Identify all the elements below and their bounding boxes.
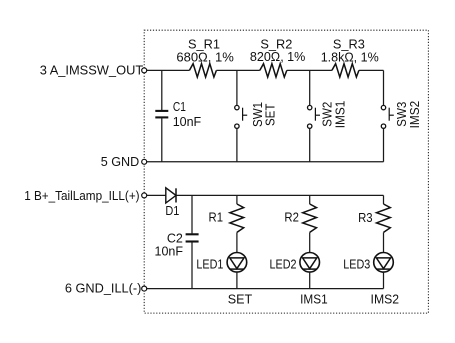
- wire LED1 lower lead: [236, 272, 238, 289]
- resistor S_R3: [332, 64, 359, 77]
- wire SW1 upper lead: [236, 70, 238, 105]
- capacitor C2: [186, 234, 199, 241]
- resistor S_R1: [189, 64, 216, 77]
- svg-text:LED2: LED2: [270, 257, 297, 271]
- svg-text:1 B+_TailLamp_ILL(+): 1 B+_TailLamp_ILL(+): [24, 188, 139, 203]
- wire LED3 lower lead: [383, 272, 385, 289]
- wire R2 to LED2: [309, 232, 311, 252]
- svg-text:C2: C2: [167, 231, 183, 245]
- svg-text:1.8kΩ, 1%: 1.8kΩ, 1%: [321, 50, 379, 64]
- svg-text:LED1: LED1: [196, 257, 223, 271]
- svg-text:IMS2: IMS2: [371, 293, 400, 307]
- wire C1 lower lead: [161, 118, 163, 162]
- svg-text:6 GND_ILL(-): 6 GND_ILL(-): [65, 281, 142, 296]
- capacitor C1: [155, 111, 168, 118]
- wire A_IMSSW_OUT rail: S_R3 to node SW3: [359, 69, 384, 71]
- wire C2 upper lead: [191, 195, 193, 233]
- svg-text:10nF: 10nF: [155, 245, 184, 259]
- pin 5 terminal: [142, 159, 147, 164]
- wire SW3 lower lead: [383, 128, 385, 161]
- svg-text:10nF: 10nF: [173, 115, 202, 129]
- wire B+ rail: pin 1 to D1 anode: [147, 194, 166, 196]
- LED LED2: [300, 252, 320, 272]
- pin 1 terminal: [142, 193, 147, 198]
- wire A_IMSSW_OUT rail: S_R1 to S_R2 (node SW1): [216, 69, 259, 71]
- svg-text:IMS1: IMS1: [300, 293, 328, 307]
- wire GND rail (pin 5): [147, 161, 384, 163]
- wire LED2 lower lead: [309, 272, 311, 289]
- wire SW3 upper lead: [383, 70, 385, 105]
- wire R3 to LED3: [383, 232, 385, 252]
- wire SW1 lower lead: [236, 128, 238, 161]
- LED LED3: [374, 252, 394, 272]
- resistor R1: [230, 204, 244, 232]
- wire B+ rail: D1 cathode to node IMS2: [176, 194, 384, 196]
- wire GND_ILL rail (pin 6): [147, 288, 384, 290]
- resistor R2: [303, 204, 317, 232]
- wire A_IMSSW_OUT rail: pin 3 to S_R1: [147, 69, 190, 71]
- resistor R3: [377, 204, 391, 232]
- svg-text:R1: R1: [209, 211, 224, 225]
- svg-text:3 A_IMSSW_OUT: 3 A_IMSSW_OUT: [40, 63, 144, 78]
- svg-text:IMS2: IMS2: [408, 101, 422, 129]
- wire C2 lower lead: [191, 242, 193, 288]
- pin 6 terminal: [142, 286, 147, 291]
- wire SW2 upper lead: [309, 70, 311, 105]
- wire R2 upper lead: [309, 195, 311, 204]
- wire R1 upper lead: [236, 195, 238, 204]
- module boundary (dashed enclosure): [144, 30, 428, 313]
- svg-text:D1: D1: [165, 204, 179, 218]
- svg-text:C1: C1: [173, 100, 186, 114]
- svg-text:IMS1: IMS1: [333, 101, 347, 129]
- switch SW2 (pushbutton contacts and actuator): [308, 105, 321, 128]
- svg-text:SET: SET: [264, 103, 278, 126]
- svg-text:820Ω, 1%: 820Ω, 1%: [250, 50, 306, 64]
- svg-text:SET: SET: [228, 293, 253, 307]
- pin 3 terminal: [142, 68, 147, 73]
- wire R3 upper lead: [383, 195, 385, 204]
- wire C1 upper lead: [161, 70, 163, 110]
- resistor S_R2: [260, 64, 287, 77]
- diode D1: [166, 188, 176, 203]
- wire R1 to LED1: [236, 232, 238, 252]
- svg-text:R3: R3: [358, 211, 373, 225]
- switch SW3 (pushbutton contacts and actuator): [381, 105, 394, 128]
- wire A_IMSSW_OUT rail: S_R2 to S_R3 (node SW2): [287, 69, 332, 71]
- svg-text:LED3: LED3: [343, 257, 370, 271]
- svg-text:680Ω, 1%: 680Ω, 1%: [176, 50, 234, 64]
- svg-text:R2: R2: [284, 211, 299, 225]
- LED LED1: [227, 252, 247, 272]
- switch SW1 (pushbutton contacts and actuator): [235, 105, 248, 128]
- svg-text:5 GND: 5 GND: [101, 154, 140, 169]
- wire SW2 lower lead: [309, 128, 311, 161]
